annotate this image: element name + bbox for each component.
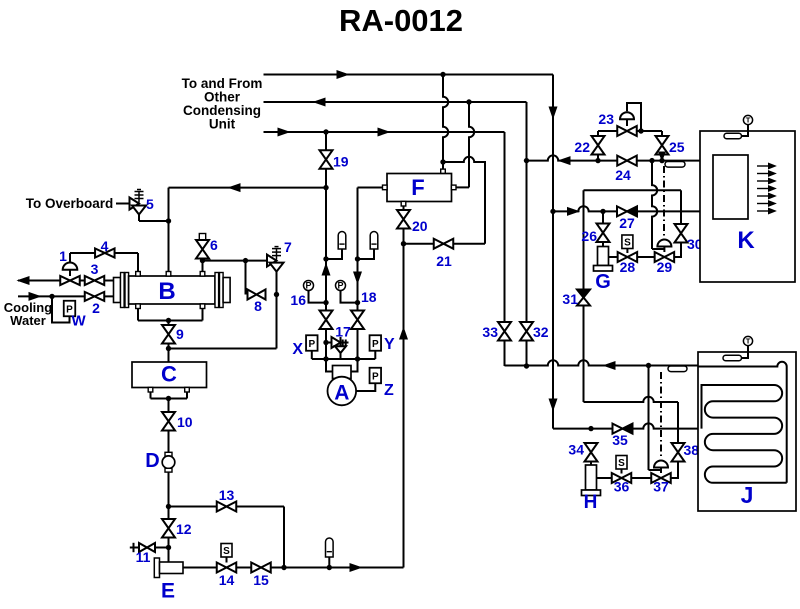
valve 7 relief (267, 247, 284, 272)
label C (161, 362, 177, 387)
svg-text:12: 12 (176, 521, 192, 537)
valve 28 (618, 252, 638, 262)
label 31 (562, 291, 578, 307)
valve 23 (617, 126, 637, 136)
label 2 (92, 300, 100, 316)
nub C bottom 1 (148, 387, 153, 392)
label 36 (614, 479, 630, 495)
text To and From Other Condensing Unit (182, 76, 263, 132)
wire J liquid feed line (553, 423, 702, 428)
label Y (384, 336, 395, 353)
node junction valve6/valve7 line (200, 258, 205, 263)
label 19 (333, 154, 349, 170)
label 10 (177, 414, 193, 430)
valve 21 (434, 239, 454, 249)
wire valve3 to B cap (104, 280, 114, 282)
drier D bottom tab (165, 468, 172, 472)
compressor discharge service valve (320, 311, 333, 330)
sensor X branch (311, 351, 313, 359)
charge bulb branch right (358, 249, 375, 259)
wire G bypass line (584, 189, 682, 191)
wire valve 38 outlet (671, 462, 679, 479)
label H (584, 492, 598, 513)
air flow arrows in K (757, 163, 776, 214)
valve 22 (592, 136, 605, 155)
wire valve 22 riser (597, 131, 599, 161)
nub F left (383, 185, 388, 190)
wire into compressor block (326, 359, 358, 372)
svg-text:T: T (746, 116, 751, 125)
wire valve 30 riser (680, 190, 682, 224)
flow arrow left on line 2 (314, 98, 325, 106)
svg-text:S: S (223, 546, 230, 557)
svg-text:32: 32 (533, 324, 549, 340)
svg-text:25: 25 (669, 139, 685, 155)
wire top line 2 (264, 101, 527, 103)
label J (741, 482, 754, 508)
svg-text:20: 20 (412, 218, 428, 234)
label 33 (482, 324, 498, 340)
valve 11 (139, 543, 155, 552)
valve 28 solenoid box (622, 235, 633, 253)
label 35 (612, 432, 628, 448)
sensor W pressure box (64, 301, 76, 317)
wire valve 7 line (203, 260, 268, 262)
compressor A block (333, 366, 352, 379)
wire valve 38 drop (677, 402, 679, 443)
flow arrow right on line 1 (337, 71, 348, 79)
node junction line3/valve19 (323, 129, 328, 134)
node junction gauge 16 (323, 300, 328, 305)
svg-text:Y: Y (384, 336, 395, 353)
valve 5 relief to overboard (116, 190, 146, 215)
label X (292, 341, 303, 358)
flow arrow right K liquid (568, 208, 579, 216)
wire K suction line (527, 155, 714, 160)
nub B bottom 1 (136, 304, 141, 309)
valve 23 pilot loop (627, 103, 641, 131)
valve 33 (498, 322, 511, 341)
wire valve7/8 drain drop (276, 295, 278, 349)
node junction valve 25 (659, 158, 664, 163)
nub B bottom 2 (200, 304, 205, 309)
separator F box (387, 174, 452, 202)
valve 24 (617, 156, 637, 166)
wire F bottom to valve 20 (403, 206, 405, 210)
wire valve 1/4 riser (69, 253, 71, 263)
sensor X pressure box (306, 335, 318, 351)
label 27 (619, 215, 635, 231)
flow arrow right on E line (350, 564, 361, 572)
svg-text:G: G (595, 271, 611, 293)
wire J equalizer drop (649, 366, 662, 471)
label 4 (101, 238, 109, 254)
valve 1 dome actuator (63, 263, 78, 277)
label 18 (361, 289, 377, 305)
title RA-0012 (339, 3, 463, 38)
valve 4 (95, 249, 115, 258)
valve 25 (656, 136, 669, 155)
svg-text:Water: Water (10, 313, 46, 328)
thermal bulb K suction (665, 162, 685, 168)
wire suction riser (403, 244, 405, 568)
pressure gauge 18 (336, 281, 346, 291)
label 22 (574, 139, 590, 155)
valve 11 hose cap (130, 543, 136, 552)
receiver C box (132, 362, 207, 388)
wire F top nub link (442, 162, 444, 169)
nub F top (441, 169, 446, 174)
svg-text:34: 34 (568, 442, 584, 458)
node junction X/equalizer left (323, 356, 328, 361)
node junction valve 22 (595, 158, 600, 163)
wire vent line left of valve 1 (18, 280, 61, 282)
node junction line2/x469 (466, 99, 471, 104)
node junction C bottom manifold (166, 396, 171, 401)
wire E outlet line (183, 567, 404, 569)
wire valve36 to valve37 (631, 477, 651, 479)
condenser B right flange (215, 273, 223, 308)
valve 34 (585, 443, 598, 462)
wire drier H to valve 36 (597, 477, 612, 479)
valve 14 (217, 563, 237, 573)
wire valve1-valve3 link (80, 280, 85, 282)
condenser B left cap (114, 278, 121, 303)
flow arrow right cooling water (29, 293, 40, 301)
wire compressor suction line x357 (357, 188, 359, 372)
valve 15 (251, 563, 271, 573)
flow arrow up on discharge (322, 264, 330, 275)
label 8 (254, 298, 262, 314)
node junction pilot return (638, 128, 643, 133)
text To Overboard (26, 196, 114, 211)
drier H (582, 465, 601, 496)
svg-text:C: C (161, 362, 177, 387)
drier D top tab (165, 452, 172, 456)
svg-text:S: S (624, 238, 631, 249)
svg-text:P: P (372, 339, 379, 350)
wire valve 31 outlet line (584, 397, 679, 402)
valve 29 TXV dome (657, 240, 671, 247)
valve 9 (162, 325, 175, 344)
wire x443 drop from line 1 (443, 75, 448, 163)
svg-text:8: 8 (254, 298, 262, 314)
K box (700, 131, 795, 282)
wire manifold to valve 9 (168, 321, 170, 326)
node junction line1/x443 (440, 72, 445, 77)
svg-text:P: P (308, 339, 315, 350)
svg-text:28: 28 (620, 259, 636, 275)
node junction K liquid branch (550, 209, 555, 214)
node junction charge bulb E (327, 565, 332, 570)
wire compressor discharge line x326 (325, 188, 327, 372)
svg-text:11: 11 (136, 549, 151, 565)
wire valve 13 drop (283, 507, 285, 568)
valve 12 (162, 519, 175, 538)
drier D body circle (162, 456, 175, 469)
svg-text:W: W (72, 313, 87, 330)
svg-text:19: 19 (333, 154, 349, 170)
svg-text:21: 21 (436, 253, 452, 269)
node junction G drier branch (600, 209, 605, 214)
node junction drain/receiver line (166, 346, 171, 351)
valve 37 (651, 473, 671, 483)
node junction W sensor (49, 294, 54, 299)
svg-text:16: 16 (290, 292, 306, 308)
valve 29 stem (663, 247, 665, 253)
label 7 (284, 239, 292, 255)
svg-text:D: D (145, 450, 159, 472)
valve 6 vent cap (199, 234, 205, 240)
wire valve 4 line (70, 252, 138, 254)
pressure gauge 16 (304, 281, 314, 291)
label 29 (657, 259, 673, 275)
wire valve7/8 drain horizontal (169, 348, 277, 350)
wire W sensor branch (52, 296, 70, 322)
wire valve 31 drop (583, 190, 585, 402)
svg-text:H: H (584, 492, 598, 513)
node junction overboard branch (166, 218, 171, 223)
svg-text:P: P (337, 281, 343, 291)
svg-text:P: P (372, 372, 379, 383)
wire valve 11 line (136, 547, 169, 549)
charging valve bulb left (338, 232, 346, 249)
svg-text:37: 37 (653, 479, 669, 495)
wire J suction line (505, 360, 699, 365)
svg-text:A: A (334, 382, 349, 405)
valve 23 dome (620, 112, 634, 119)
wire valve26 to drier G (602, 242, 604, 247)
flow arrow left on discharge header (229, 184, 240, 192)
thermal bulb inside K (724, 133, 742, 139)
node junction gauge 18 (355, 300, 360, 305)
svg-text:27: 27 (619, 215, 635, 231)
svg-text:Z: Z (384, 382, 394, 399)
wire valve 8 riser (245, 261, 247, 295)
wire valve 34 to drier H (590, 462, 592, 466)
label 23 (598, 111, 614, 127)
wire compressor discharge header (169, 187, 327, 189)
node junction valve8 riser (243, 258, 248, 263)
wire valve 7 outlet drop (276, 272, 278, 295)
wire B bottom manifold (138, 309, 203, 321)
node junction B bottom manifold (166, 318, 171, 323)
svg-text:33: 33 (482, 324, 498, 340)
valve 19 (320, 150, 333, 169)
wire cooling water inlet (18, 295, 114, 297)
wire valve28 to valve29 (637, 256, 655, 258)
node junction Y/equalizer right (355, 356, 360, 361)
drier G (594, 247, 613, 272)
valve 26 (597, 224, 610, 243)
condenser B left flange (121, 273, 129, 308)
svg-text:K: K (737, 227, 755, 254)
wire manifold to valve 10 (168, 399, 170, 413)
valve 36 (612, 473, 632, 483)
wire valve 25 riser (661, 131, 663, 161)
svg-text:E: E (161, 580, 175, 603)
valve 6 (196, 240, 209, 259)
valve 35 check (613, 424, 633, 434)
label 6 (210, 237, 218, 253)
wire x504 drop line3 (504, 132, 506, 366)
label 20 (412, 218, 428, 234)
valve 37 stem (660, 468, 662, 474)
svg-text:Unit: Unit (209, 117, 236, 132)
svg-text:9: 9 (176, 326, 184, 342)
label 15 (253, 572, 269, 588)
K coil core (713, 155, 748, 219)
valve 32 (520, 322, 533, 341)
valve 13 (217, 502, 237, 512)
compressor suction service valve (351, 311, 364, 330)
label 24 (615, 167, 631, 183)
sensor Y pressure box (370, 335, 382, 351)
svg-text:35: 35 (612, 432, 628, 448)
charging vessel E body (160, 562, 184, 574)
label 13 (219, 487, 235, 503)
valve 1 (60, 276, 80, 285)
valve 29 (655, 252, 675, 262)
wire F left nub to compressor line (358, 187, 383, 189)
wire valve4 drop to B nub1 (137, 253, 139, 272)
thermal bulb inside J (723, 355, 742, 361)
label 30 (687, 236, 703, 252)
wire valve 20 outlet (403, 229, 405, 244)
flow arrow left K suction (559, 157, 570, 165)
valve 14 solenoid box (221, 544, 232, 563)
wire overboard branch (139, 215, 169, 222)
svg-text:T: T (746, 337, 751, 346)
node junction F top (440, 159, 445, 164)
label 21 (436, 253, 452, 269)
svg-text:38: 38 (684, 442, 700, 458)
svg-text:15: 15 (253, 572, 269, 588)
valve 31 stop check (577, 290, 590, 306)
text Cooling Water (4, 300, 52, 328)
node junction discharge bulb (323, 256, 328, 261)
svg-text:RA-0012: RA-0012 (339, 3, 463, 38)
wire valve 13 line (169, 506, 285, 508)
node junction K equalizer (649, 158, 654, 163)
valve 3 (85, 276, 105, 285)
svg-text:X: X (292, 341, 303, 358)
valve 30 (675, 224, 688, 243)
label 37 (653, 479, 669, 495)
wire valve 21 line (404, 243, 486, 245)
sensor Z branch (356, 383, 375, 391)
charging valve bulb at E (326, 538, 334, 567)
svg-text:23: 23 (598, 111, 614, 127)
nub B top 1 (136, 272, 141, 277)
svg-text:7: 7 (284, 239, 292, 255)
wire valve 19 riser (325, 132, 327, 188)
label 9 (176, 326, 184, 342)
gauge 18 stem (341, 291, 358, 303)
wire equalizer line (312, 358, 376, 360)
valve 36 solenoid box (616, 456, 627, 474)
wire K equalizer drop (652, 161, 664, 249)
svg-text:S: S (618, 458, 625, 469)
wire valve 10 to drier D (168, 431, 170, 453)
valve 38 (672, 443, 685, 462)
flow arrow down on suction (354, 272, 362, 283)
node junction valve13 drop/E line (281, 565, 286, 570)
svg-text:F: F (411, 175, 424, 200)
wire valve 12 to E (168, 538, 170, 563)
node junction valve 11 branch (166, 545, 171, 550)
capillary dash-dot K (663, 166, 665, 239)
wire valve 26 riser (602, 211, 604, 223)
wire valve 23 bridge (598, 130, 662, 132)
label 12 (176, 521, 192, 537)
label E (161, 580, 175, 603)
valve 37 TXV dome (654, 461, 668, 468)
svg-text:6: 6 (210, 237, 218, 253)
label 34 (568, 442, 584, 458)
label 16 (290, 292, 306, 308)
flow arrow down valve 25 outlet (659, 152, 666, 160)
valve 2 (85, 292, 105, 301)
node junction valve 13 branch (166, 504, 171, 509)
label A (334, 382, 349, 405)
J evaporator coil serpentine (702, 385, 787, 483)
charging valve bulb right (370, 232, 378, 249)
svg-text:3: 3 (91, 261, 99, 277)
svg-text:22: 22 (574, 139, 590, 155)
label 1 (59, 248, 67, 264)
wire valve29 outlet to valve 30 (674, 243, 681, 258)
label K (737, 227, 755, 254)
flow arrow down main header top (549, 107, 557, 118)
svg-text:1: 1 (59, 248, 67, 264)
wire top line 1 to other condensing unit (264, 74, 554, 76)
node junction valve 34 branch (588, 426, 593, 431)
wire discharge header drop to condenser B (168, 188, 170, 272)
svg-text:4: 4 (101, 238, 109, 254)
valve 17 relief (326, 337, 349, 359)
sensor Z pressure box (370, 368, 382, 384)
capillary dash-dot J (660, 372, 662, 459)
wire K liquid line (553, 206, 713, 211)
valve 10 (162, 412, 175, 431)
flow arrow down main header bottom (549, 399, 557, 410)
flow arrow up on suction riser (400, 328, 408, 339)
node junction suction K header (524, 158, 529, 163)
flow arrow left on vent line (18, 277, 29, 285)
label 25 (669, 139, 685, 155)
label 3 (91, 261, 99, 277)
valve 23 stem (626, 119, 628, 126)
wire main liquid header x553 (552, 75, 554, 429)
svg-text:P: P (305, 281, 311, 291)
label W (72, 313, 87, 330)
gauge 16 stem (309, 291, 327, 303)
label Z (384, 382, 394, 399)
node junction valve 17 inlet (323, 340, 328, 345)
label 5 (146, 196, 154, 212)
wire F bypass to valve 21 (443, 157, 485, 244)
svg-text:5: 5 (146, 196, 154, 212)
nub C bottom 2 (185, 387, 190, 392)
svg-text:26: 26 (581, 228, 597, 244)
svg-text:14: 14 (219, 572, 235, 588)
sensor Y branch (374, 351, 376, 359)
node junction J equalizer (646, 363, 651, 368)
condenser B shell (129, 276, 215, 304)
valve 8 (248, 290, 266, 300)
wire drier D to valve 12 (168, 472, 170, 519)
